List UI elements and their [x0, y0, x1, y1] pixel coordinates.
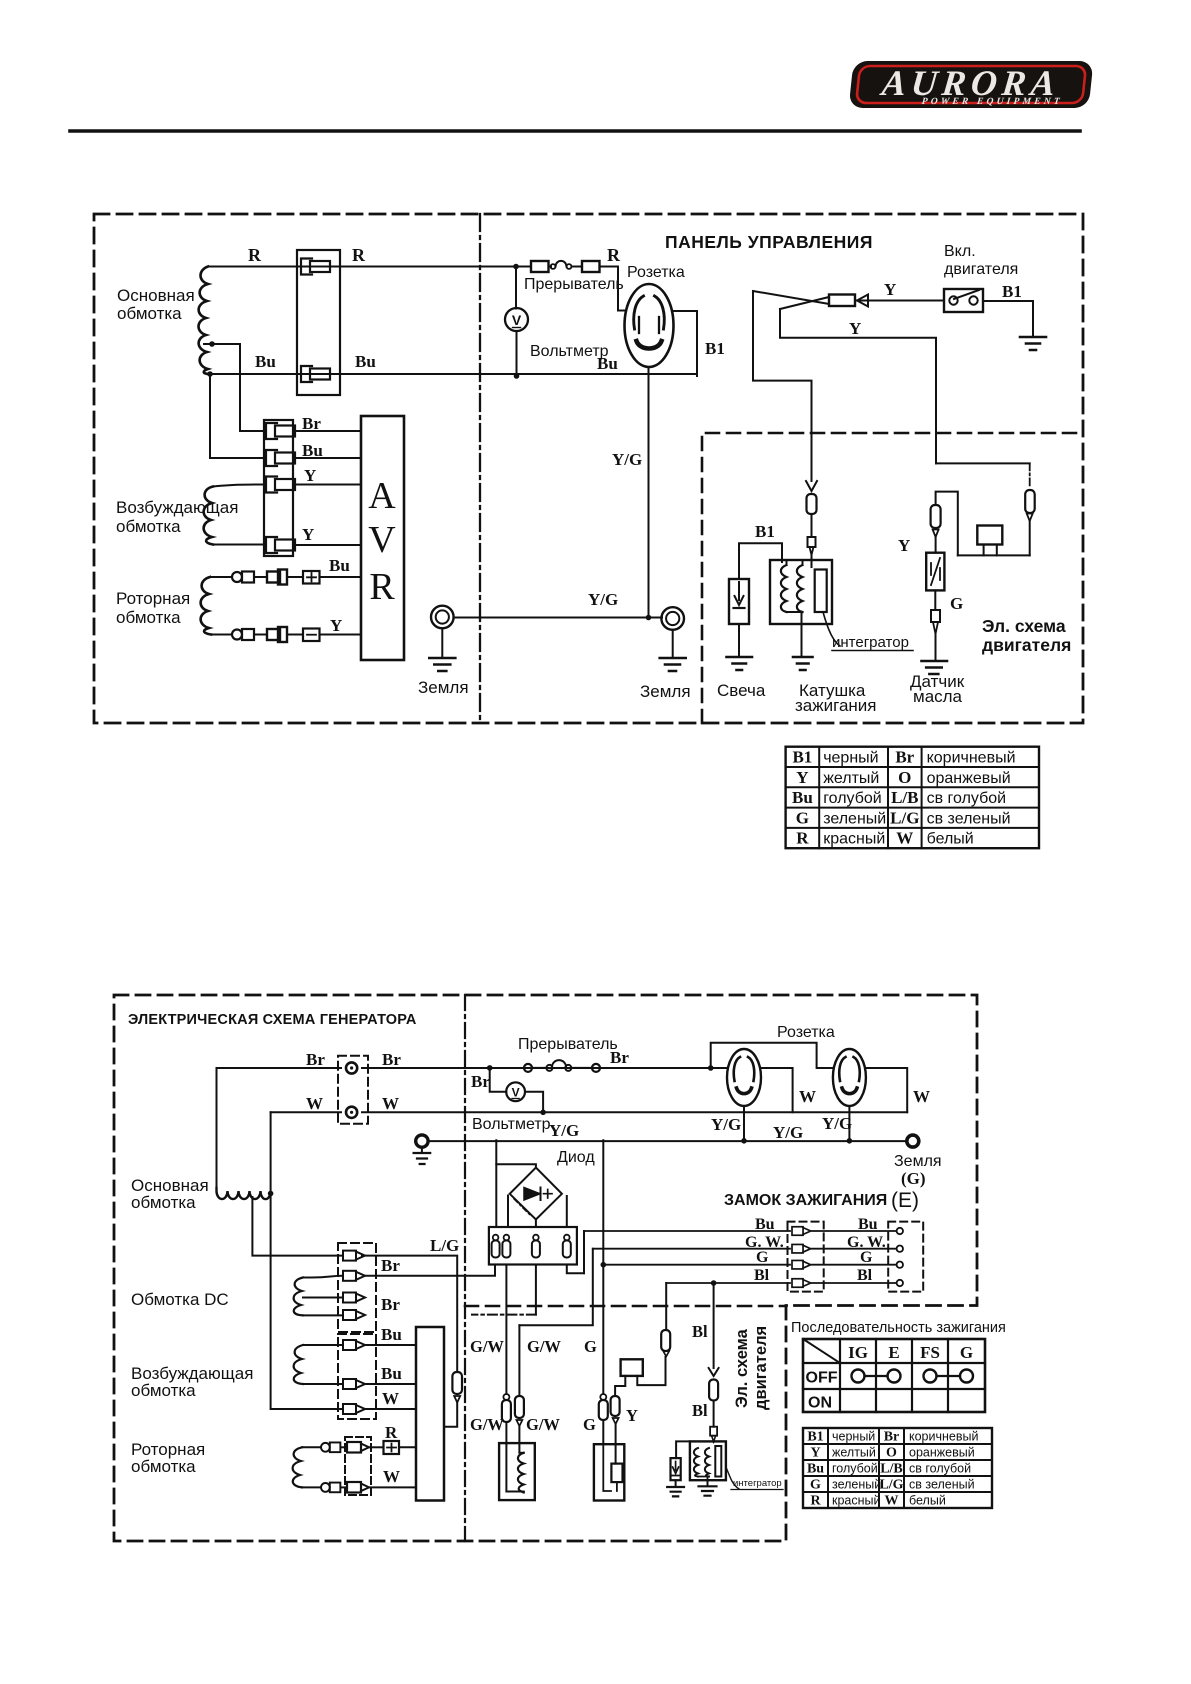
svg-text:Y: Y — [302, 525, 314, 544]
node: coil joins W drop — [268, 1191, 274, 1197]
svg-text:Свеча: Свеча — [717, 681, 766, 700]
svg-text:R: R — [248, 245, 262, 265]
wires to lock — [812, 1231, 896, 1283]
ignition coil ground (lower) — [707, 1480, 709, 1486]
svg-text:V: V — [512, 1086, 520, 1100]
Y/G drop to bridge — [495, 1140, 497, 1227]
socket B — [833, 1049, 866, 1106]
wire W upper-left (lower diagram) — [271, 1111, 341, 1113]
svg-text:Вкл.: Вкл. — [944, 243, 976, 260]
svg-text:оранжевый: оранжевый — [927, 770, 1011, 787]
svg-text:Вольтметр: Вольтметр — [472, 1116, 551, 1133]
svg-text:св зеленый: св зеленый — [927, 810, 1011, 827]
svg-text:Br: Br — [884, 1430, 900, 1445]
svg-text:Y/G: Y/G — [612, 450, 642, 469]
svg-text:желтый: желтый — [832, 1446, 876, 1460]
DC winding terminals — [303, 1278, 343, 1316]
svg-text:Br: Br — [306, 1050, 325, 1069]
pin tails under bridge box — [505, 1265, 507, 1394]
svg-text:Bu: Bu — [858, 1216, 878, 1233]
bottom link wire — [958, 554, 1030, 556]
voltmeter (lower) — [490, 1068, 507, 1092]
svg-text:коричневый: коричневый — [927, 750, 1016, 767]
svg-text:W: W — [383, 1467, 400, 1486]
svg-text:G: G — [583, 1415, 596, 1434]
svg-text:зеленый: зеленый — [832, 1478, 881, 1492]
node: R wire junction at voltmeter — [513, 264, 519, 270]
breaker (fuse pair) upper — [531, 261, 549, 272]
ignition coil T1 — [770, 560, 832, 624]
svg-text:Эл. схема: Эл. схема — [733, 1328, 751, 1408]
oil pressure switch — [926, 553, 944, 591]
svg-text:L/B: L/B — [891, 788, 918, 807]
svg-text:L/G: L/G — [430, 1236, 459, 1255]
svg-text:Розетка: Розетка — [627, 264, 685, 281]
svg-text:Bl: Bl — [692, 1322, 708, 1341]
svg-text:обмотка: обмотка — [131, 1457, 196, 1476]
svg-text:обмотка: обмотка — [116, 517, 181, 536]
G/W wire 1 (from bridge pin2) — [503, 1394, 509, 1400]
regulator box (lower, unlabeled) — [416, 1327, 444, 1501]
ground ring with symbol (lower left) — [416, 1135, 428, 1147]
row G — [603, 1264, 790, 1266]
svg-text:G/W: G/W — [527, 1337, 561, 1356]
svg-text:Y: Y — [884, 280, 896, 299]
svg-text:Y/G: Y/G — [588, 590, 618, 609]
svg-text:B1: B1 — [807, 1430, 823, 1445]
wire Br upper-left (lower diagram) — [217, 1068, 342, 1188]
header rule — [70, 129, 1080, 133]
svg-text:L/G: L/G — [879, 1478, 903, 1493]
svg-text:IG: IG — [848, 1343, 868, 1362]
svg-text:G: G — [810, 1478, 821, 1493]
svg-text:Вольтметр: Вольтметр — [530, 343, 609, 360]
color legend table lower — [803, 1428, 992, 1508]
svg-text:Y/G: Y/G — [773, 1123, 803, 1142]
svg-text:ЗАМОК ЗАЖИГАНИЯ: ЗАМОК ЗАЖИГАНИЯ — [724, 1192, 887, 1209]
svg-text:двигателя: двигателя — [944, 261, 1018, 278]
node: Br junction at voltmeter drop — [487, 1065, 493, 1071]
svg-text:Br: Br — [382, 1050, 401, 1069]
svg-text:Y/G: Y/G — [711, 1115, 741, 1134]
color legend table upper — [786, 747, 1039, 849]
wire Y/G between grounds — [454, 617, 662, 619]
wire switch to ground — [983, 301, 1033, 336]
svg-text:G: G — [584, 1337, 597, 1356]
coil tap to L/G — [252, 1197, 343, 1256]
svg-text:G: G — [796, 808, 809, 827]
svg-text:O: O — [898, 768, 911, 787]
excitation winding coil L2 — [204, 487, 213, 545]
svg-text:W: W — [382, 1389, 399, 1408]
ground terminal ring (left) — [431, 606, 454, 629]
svg-text:желтый: желтый — [823, 770, 879, 787]
wire Y lower branch — [780, 309, 936, 463]
svg-text:обмотка: обмотка — [117, 304, 182, 323]
svg-text:черный: черный — [832, 1430, 875, 1444]
svg-text:G/W: G/W — [470, 1415, 504, 1434]
svg-text:R: R — [369, 566, 395, 608]
integrator label + leader — [823, 612, 840, 646]
svg-text:св голубой: св голубой — [927, 790, 1007, 807]
svg-text:Розетка: Розетка — [777, 1024, 835, 1041]
wires CN2 pins to AVR — [295, 431, 361, 545]
wires strip2 to regulator box — [365, 1345, 416, 1409]
svg-text:Y: Y — [898, 536, 910, 555]
engine box top dashed (lower) — [465, 1305, 786, 1308]
svg-text:Bl: Bl — [754, 1267, 770, 1284]
svg-text:Y: Y — [849, 319, 861, 338]
AVR box U1 — [361, 416, 404, 660]
svg-text:ПАНЕЛЬ УПРАВЛЕНИЯ: ПАНЕЛЬ УПРАВЛЕНИЯ — [665, 232, 873, 252]
svg-text:голубой: голубой — [823, 790, 882, 807]
oil sensor branch top loop — [936, 462, 1030, 464]
wire excitation to pin Y (top) — [213, 485, 266, 487]
svg-text:Bu: Bu — [792, 788, 813, 807]
svg-text:обмотка: обмотка — [131, 1193, 196, 1212]
svg-text:B1: B1 — [705, 339, 725, 358]
socket stems to Y/G — [744, 1106, 849, 1140]
svg-text:O: O — [886, 1446, 897, 1461]
wire Br to diode bridge pin1 — [365, 1265, 495, 1276]
svg-text:Эл. схема: Эл. схема — [982, 616, 1066, 636]
svg-text:ЭЛЕКТРИЧЕСКАЯ СХЕМА ГЕНЕРАТОРА: ЭЛЕКТРИЧЕСКАЯ СХЕМА ГЕНЕРАТОРА — [128, 1012, 417, 1028]
svg-text:W: W — [382, 1094, 399, 1113]
DC winding coil — [294, 1278, 303, 1316]
svg-text:R: R — [607, 245, 621, 265]
ignition coil box (lower) — [690, 1441, 726, 1480]
svg-text:W: W — [799, 1087, 816, 1106]
svg-text:Возбуждающая: Возбуждающая — [116, 498, 238, 517]
svg-text:красный: красный — [832, 1494, 881, 1508]
ground symbol at switch — [1020, 337, 1046, 350]
wire Bl branch down to ignition coil — [753, 291, 812, 481]
main coil (horizontal) lower — [217, 1188, 271, 1199]
ground symbol left — [441, 628, 443, 657]
svg-text:W: W — [896, 829, 913, 848]
row G.W. — [519, 1249, 592, 1326]
svg-text:Y/G: Y/G — [822, 1114, 852, 1133]
svg-text:ON: ON — [808, 1395, 832, 1412]
svg-text:Bu: Bu — [329, 556, 350, 575]
svg-text:Bu: Bu — [755, 1216, 775, 1233]
svg-text:Диод: Диод — [557, 1149, 595, 1166]
svg-text:Br: Br — [381, 1256, 400, 1275]
Aurora logo — [849, 61, 1094, 108]
OFF row contact circles — [852, 1370, 865, 1383]
rotor top lead R — [302, 1446, 321, 1448]
oil sensor box (lower engine) — [594, 1444, 624, 1500]
Bl wire down to ignition coil (lower) — [713, 1283, 715, 1368]
wire socket B1 to Bu wire — [674, 311, 698, 376]
svg-text:Роторная: Роторная — [116, 589, 190, 608]
svg-text:зажигания: зажигания — [795, 696, 877, 715]
svg-text:Y: Y — [330, 616, 342, 635]
svg-text:обмотка: обмотка — [116, 608, 181, 627]
svg-text:R: R — [810, 1494, 821, 1509]
rotor coil (lower) — [293, 1447, 302, 1487]
relay box (lower engine) — [621, 1359, 643, 1376]
ground symbol oil sensor — [922, 661, 948, 674]
ignition lock connector — [888, 1222, 923, 1292]
svg-text:Y/G: Y/G — [549, 1121, 579, 1140]
fuse left (oil sensor chain) — [931, 505, 941, 528]
rotor bottom lead W — [302, 1486, 321, 1488]
svg-text:L/B: L/B — [880, 1462, 903, 1477]
wire coil bottom to AVR connector pin Bu — [210, 374, 264, 458]
wire tap to AVR connector pin Br — [204, 344, 264, 431]
node: coil tap junction — [209, 341, 215, 347]
connector block (ring pins) lower — [338, 1056, 368, 1124]
wire excitation to pin Y (bottom) — [213, 544, 264, 546]
twisted pair + connector to switch — [753, 291, 829, 304]
svg-text:Прерыватель: Прерыватель — [518, 1036, 618, 1053]
svg-text:B1: B1 — [755, 522, 775, 541]
svg-text:OFF: OFF — [806, 1370, 838, 1387]
connector strip 1 (DC) — [338, 1243, 376, 1332]
svg-text:двигателя: двигателя — [752, 1326, 770, 1410]
wire Bu (bottom) — [210, 373, 697, 375]
G drop from Y/G bus — [602, 1140, 604, 1394]
svg-text:коричневый: коричневый — [909, 1430, 978, 1444]
socket A right wire to W — [761, 1068, 793, 1112]
control panel divider (dash-dot) — [479, 214, 481, 723]
socket B right wire to W — [866, 1068, 907, 1112]
svg-text:зеленый: зеленый — [823, 810, 886, 827]
rotor - lead: wire, bullet, connector, minus terminal — [211, 634, 232, 636]
svg-text:Y: Y — [810, 1446, 820, 1461]
integrator label (lower) — [726, 1467, 739, 1489]
L/G fuse and link to box — [452, 1372, 462, 1394]
wire R (top) — [208, 266, 531, 268]
svg-text:E: E — [888, 1343, 899, 1362]
ground symbol spark plug — [727, 657, 753, 670]
diode to ground (lower engine) — [676, 1441, 690, 1458]
svg-text:Земля: Земля — [894, 1153, 942, 1170]
node: Bu wire junction at voltmeter — [514, 373, 520, 379]
svg-text:Br: Br — [381, 1295, 400, 1314]
ground terminal (G) lower right — [907, 1135, 919, 1147]
socket A — [727, 1049, 761, 1106]
svg-text:масла: масла — [913, 687, 963, 706]
svg-text:G: G — [950, 594, 963, 613]
svg-text:V: V — [368, 519, 396, 561]
engine switch SW1 — [944, 289, 983, 312]
svg-text:W: W — [306, 1094, 323, 1113]
svg-text:Основная: Основная — [117, 286, 195, 305]
spark plug P1 — [729, 579, 749, 624]
G/W wire 2 (from GW row) — [518, 1325, 520, 1396]
svg-text:Прерыватель: Прерыватель — [524, 276, 624, 293]
svg-text:Br: Br — [610, 1048, 629, 1067]
svg-text:R: R — [385, 1423, 398, 1442]
svg-text:Br: Br — [471, 1072, 490, 1091]
svg-text:POWER EQUIPMENT: POWER EQUIPMENT — [921, 97, 1063, 107]
ground symbol right — [672, 630, 674, 657]
svg-text:B1: B1 — [792, 748, 812, 767]
svg-text:двигателя: двигателя — [982, 635, 1071, 655]
svg-text:Bl: Bl — [857, 1267, 873, 1284]
svg-text:(G): (G) — [901, 1169, 926, 1188]
svg-text:Bu: Bu — [255, 352, 276, 371]
svg-text:G: G — [756, 1249, 769, 1266]
excitation coil (lower) — [294, 1345, 303, 1384]
ignition sequence table — [803, 1339, 985, 1412]
AVR 4-pin connector block CN2 — [264, 420, 293, 556]
node: coil bottom junction — [207, 371, 213, 377]
svg-text:Обмотка DC: Обмотка DC — [131, 1290, 229, 1309]
svg-text:Bu: Bu — [355, 352, 376, 371]
svg-text:G: G — [860, 1249, 873, 1266]
svg-text:(E): (E) — [891, 1189, 919, 1212]
connector small (oil sensor) — [931, 610, 940, 622]
svg-text:R: R — [352, 245, 366, 265]
lower divider (dash-dot) — [464, 995, 466, 1541]
Y/G bus wire — [428, 1140, 906, 1142]
rotor winding coil L3 — [201, 577, 211, 635]
wire socket stem down (Y/G) — [648, 367, 650, 618]
svg-text:Br: Br — [895, 748, 914, 767]
svg-text:Bl: Bl — [692, 1401, 708, 1420]
svg-text:Земля: Земля — [640, 682, 691, 701]
ground terminal ring (right) — [661, 607, 684, 630]
row Bl — [666, 1282, 790, 1284]
svg-text:Y: Y — [626, 1406, 638, 1425]
svg-text:голубой: голубой — [832, 1462, 878, 1476]
svg-text:красный: красный — [823, 831, 885, 848]
svg-text:B1: B1 — [1002, 282, 1022, 301]
socket slots — [634, 296, 644, 329]
svg-text:интегратор: интегратор — [733, 1478, 782, 1489]
engine section dashed box (upper) — [702, 433, 1083, 723]
connector strip 2 (excitation) — [338, 1334, 376, 1419]
spark plug branch: B1 wire — [739, 543, 782, 579]
svg-text:Bu: Bu — [807, 1462, 824, 1477]
ground symbol ignition coil — [793, 657, 813, 670]
voltmeter V1 (upper) — [515, 267, 517, 309]
connector block CN1 — [297, 250, 340, 395]
relay box (small) upper — [977, 526, 1002, 545]
svg-text:Последовательность зажигания: Последовательность зажигания — [791, 1320, 1006, 1336]
svg-text:белый: белый — [909, 1494, 946, 1508]
svg-text:обмотка: обмотка — [131, 1381, 196, 1400]
row Bu — [583, 1231, 585, 1273]
W drop wire — [271, 1112, 343, 1409]
relay right leg to Bl fuse chain — [637, 1357, 665, 1385]
svg-text:W: W — [885, 1494, 899, 1509]
svg-text:R: R — [796, 829, 809, 848]
rotor + lead: wire, bullet, connector, plus terminal — [210, 576, 232, 578]
diode bridge diamond — [510, 1168, 562, 1220]
generator section dashed border (lower, with notch) — [114, 995, 977, 1541]
svg-text:черный: черный — [823, 750, 878, 767]
main winding coil L1 — [199, 267, 211, 375]
svg-text:св голубой: св голубой — [909, 1462, 971, 1476]
svg-text:FS: FS — [920, 1343, 940, 1362]
generator section dashed border (upper) — [94, 214, 1083, 723]
svg-text:Y: Y — [304, 466, 316, 485]
bridge connector box — [489, 1227, 577, 1265]
svg-text:интегратор: интегратор — [832, 634, 909, 651]
svg-text:G/W: G/W — [470, 1337, 504, 1356]
svg-text:L/G: L/G — [890, 808, 919, 827]
svg-text:Bu: Bu — [381, 1325, 402, 1344]
rotor connector strip 3 — [345, 1437, 371, 1495]
svg-text:W: W — [913, 1087, 930, 1106]
svg-text:Y: Y — [796, 768, 808, 787]
fuse right of oil sensor — [1025, 490, 1035, 513]
wire breaker to socket — [600, 267, 626, 311]
svg-text:V: V — [512, 312, 522, 328]
svg-text:оранжевый: оранжевый — [909, 1446, 975, 1460]
svg-text:белый: белый — [927, 831, 974, 848]
svg-text:Земля: Земля — [418, 678, 469, 697]
ignition lock mid connector strip — [788, 1222, 824, 1292]
node: stem meets ground wire — [646, 615, 652, 621]
exciter coil box (lower engine) — [499, 1443, 535, 1500]
bridge corner drops — [508, 1196, 567, 1228]
socket loop wire — [711, 1043, 833, 1068]
svg-text:св зеленый: св зеленый — [909, 1478, 975, 1492]
svg-text:Bu: Bu — [381, 1364, 402, 1383]
svg-text:G: G — [960, 1343, 973, 1362]
svg-text:A: A — [368, 475, 396, 517]
ignition coil feed: arrow, fuse, connector — [806, 481, 817, 491]
svg-text:G/W: G/W — [526, 1415, 560, 1434]
